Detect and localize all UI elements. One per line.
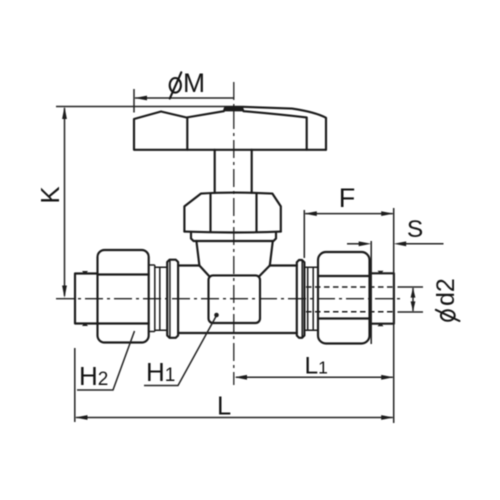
label H1 with leader: [144, 313, 219, 387]
dimension F line: [304, 211, 393, 216]
right tube stub: [371, 271, 394, 326]
label phi-d2: [432, 278, 460, 321]
left tube stub: [75, 271, 98, 326]
svg-text:K: K: [35, 186, 65, 204]
packing hex nut: [184, 193, 280, 233]
hidden bore lines: [306, 287, 394, 312]
dimension phi-d2 extension segments: [398, 287, 424, 312]
svg-text:d2: d2: [432, 278, 460, 306]
handle bar: [134, 107, 326, 150]
right union nut: [318, 252, 370, 344]
dimension phi-M extension line: [133, 89, 135, 113]
left ferrule rings: [149, 265, 168, 332]
dimension K extension line (top): [56, 106, 225, 108]
dimension phi-M line: [135, 96, 234, 101]
horizontal centerline: [56, 298, 404, 300]
svg-text:F: F: [339, 183, 356, 213]
dimension S line: [347, 241, 444, 246]
svg-text:M: M: [183, 68, 205, 98]
body hex face block: [209, 275, 261, 323]
dimension F extension lines: [303, 210, 305, 258]
svg-text:L1: L1: [305, 353, 328, 380]
valve stem: [215, 150, 252, 193]
dimension S extension line: [370, 241, 372, 344]
label phi-M: [170, 68, 205, 99]
dimension L line: [75, 415, 394, 420]
vertical centerline: [233, 82, 235, 385]
left compression nut: [98, 250, 149, 343]
dimension L extension line (left): [74, 348, 76, 422]
dimension L1 line: [235, 375, 394, 380]
label H2 with leader: [77, 331, 135, 391]
left flange: [167, 260, 178, 338]
dimension K line: [62, 107, 67, 299]
right ferrule rings: [304, 267, 317, 330]
right flange: [297, 260, 305, 338]
svg-text:L: L: [217, 393, 231, 421]
svg-text:S: S: [407, 216, 423, 243]
bonnet taper: [196, 241, 272, 277]
body barrel: [178, 266, 297, 334]
dimension phi-d2 line: [411, 288, 416, 312]
bonnet collar: [191, 232, 276, 241]
